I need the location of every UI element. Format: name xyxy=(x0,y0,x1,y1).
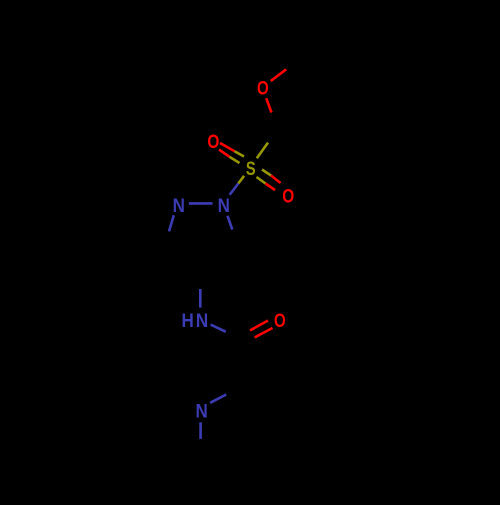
svg-text:O: O xyxy=(282,184,294,206)
svg-text:N: N xyxy=(218,194,230,217)
svg-text:O: O xyxy=(257,77,269,100)
wire S1=O2 line 1 (upper) red part xyxy=(220,143,235,151)
svg-text:N: N xyxy=(173,194,185,217)
svg-text:O: O xyxy=(274,309,286,332)
wire N2-C3 blue half xyxy=(169,215,174,231)
wire S1=O3 line 1 (upper) olive part xyxy=(262,170,271,176)
wire S1-N1 blue half xyxy=(230,184,239,195)
svg-text:H: H xyxy=(182,309,194,332)
wire S1=O3 line 2 (lower) red part xyxy=(266,184,276,191)
wire S1-C2 (olive half-bond up-right) xyxy=(257,143,268,159)
wire S1=O2 line 1 (upper) olive part xyxy=(235,151,245,156)
wire O1-C6 (red half-bond up-right) xyxy=(271,69,286,81)
wire C7=O4 line 1 (upper) red half xyxy=(250,321,268,331)
wire S1-N1 olive half xyxy=(238,176,244,184)
svg-text:N: N xyxy=(196,399,208,422)
wire N3-C7 blue half xyxy=(211,325,226,332)
wire O1-C2 (red half-bond down) xyxy=(266,98,271,112)
wire S1=O3 line 2 (lower) olive part xyxy=(257,177,266,184)
svg-text:O: O xyxy=(207,130,219,152)
wire N4-C8 blue half (up-right) xyxy=(210,395,226,403)
wire S1=O2 line 2 (lower) olive part xyxy=(230,157,240,163)
wire N4-CH3 blue half (down) xyxy=(199,422,202,439)
wire S1=O2 line 2 (lower) red part xyxy=(219,150,230,157)
wire C7=O4 line 2 (lower) red half xyxy=(255,328,273,338)
svg-text:S: S xyxy=(246,157,256,180)
wire C4-N3 amide blue half xyxy=(199,289,202,308)
svg-text:N: N xyxy=(196,309,208,332)
wire N1-C5 blue half xyxy=(228,216,233,230)
wire N1-N2 bond xyxy=(189,202,213,205)
wire S1=O3 line 1 (upper) red part xyxy=(271,176,281,184)
